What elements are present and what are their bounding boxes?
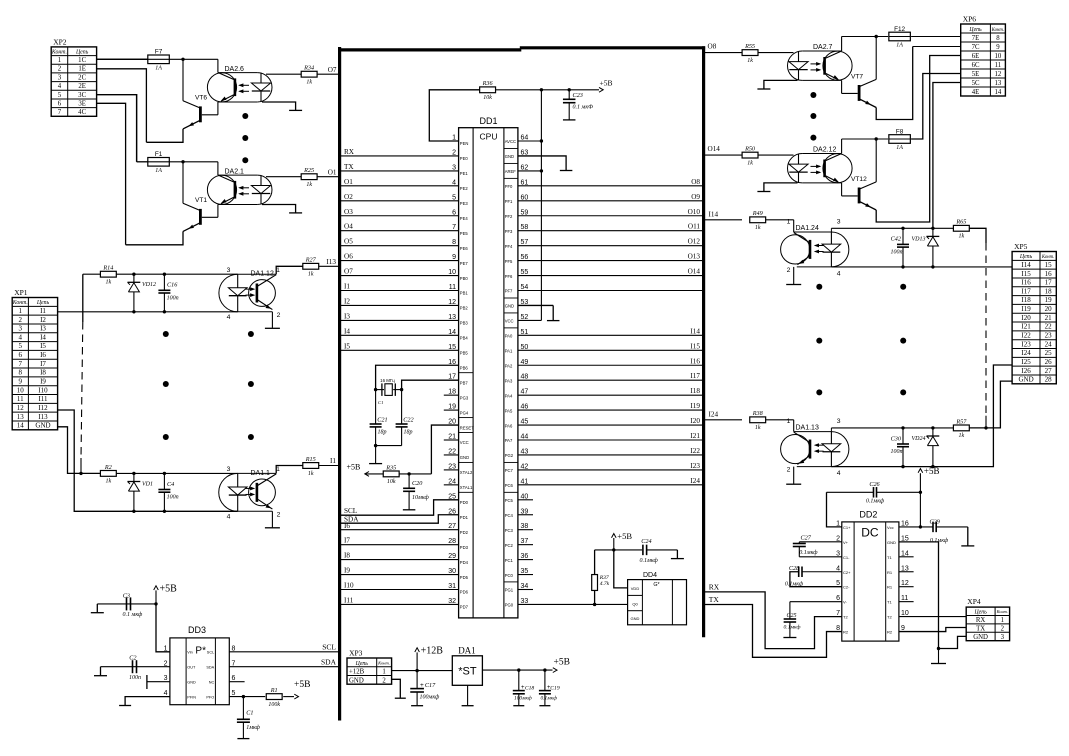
wire XP6 6E to VT12 emitter xyxy=(930,56,961,222)
svg-text:12: 12 xyxy=(995,71,1002,78)
svg-text:I23: I23 xyxy=(1021,340,1031,348)
node crystal gnd xyxy=(374,444,377,447)
svg-text:PE1: PE1 xyxy=(460,171,469,176)
svg-text:0.1мкф: 0.1мкф xyxy=(866,498,885,505)
svg-text:PA5: PA5 xyxy=(505,408,513,413)
wire net I24 from DD1 pin 41 xyxy=(518,484,704,486)
svg-text:R57: R57 xyxy=(955,418,967,425)
svg-text:I11: I11 xyxy=(344,596,354,604)
svg-text:PE2: PE2 xyxy=(460,186,469,191)
capacitor C3 xyxy=(127,603,157,605)
svg-text:DC: DC xyxy=(861,526,879,540)
wire VT7 emitter xyxy=(876,47,913,120)
wire net RX to DD1 pin 2 xyxy=(341,155,459,157)
wire net I8 to DD1 pin 29 xyxy=(341,559,459,561)
svg-text:O8: O8 xyxy=(691,178,700,186)
svg-text:O1: O1 xyxy=(344,178,353,186)
svg-text:PD4: PD4 xyxy=(460,560,469,565)
wire DA1 gnd xyxy=(467,685,469,705)
power +5V DD4 xyxy=(613,538,615,550)
svg-text:I10: I10 xyxy=(344,582,354,590)
svg-text:2E: 2E xyxy=(78,83,86,90)
wire net I20 from DD1 pin 45 xyxy=(518,424,704,426)
svg-text:F12: F12 xyxy=(894,26,905,33)
node C19 xyxy=(543,668,546,671)
svg-text:1k: 1k xyxy=(959,234,965,240)
wire to ground xyxy=(938,649,940,664)
capacitor C22 xyxy=(401,390,403,424)
wire DD1 pin 64 xyxy=(518,140,542,142)
svg-text:100n: 100n xyxy=(129,675,141,681)
wire fuse to opto collector xyxy=(217,162,219,175)
svg-text:PA1: PA1 xyxy=(505,349,513,354)
fuse F8 xyxy=(842,138,889,140)
capacitor C1 xyxy=(242,697,244,720)
wire input to opto pin1 xyxy=(793,420,795,432)
svg-text:GND: GND xyxy=(973,634,988,641)
svg-text:PF1: PF1 xyxy=(505,199,513,204)
svg-text:C1+: C1+ xyxy=(843,525,851,530)
DD1 unused left stubs xyxy=(444,394,459,396)
svg-text:I24: I24 xyxy=(709,410,719,418)
svg-text:C20: C20 xyxy=(412,480,423,487)
wire C26 to DD2 pin1 xyxy=(827,492,842,527)
svg-text:SDA: SDA xyxy=(344,516,359,524)
fuse F12 xyxy=(842,36,889,38)
wire XP1 pin12 to DA1.1 cathode rail xyxy=(58,410,238,511)
power +5V top xyxy=(599,87,603,92)
svg-text:GND: GND xyxy=(505,304,514,309)
svg-text:O3: O3 xyxy=(344,208,353,216)
svg-text:PF3: PF3 xyxy=(505,229,513,234)
svg-text:1k: 1k xyxy=(308,471,314,477)
svg-text:GND: GND xyxy=(505,154,514,159)
wire DD3 pin8 SCL to bus xyxy=(229,651,338,653)
connector XP6 xyxy=(961,24,1006,96)
svg-text:T2: T2 xyxy=(843,615,848,620)
svg-text:DD3: DD3 xyxy=(188,625,206,635)
resistor R37 xyxy=(592,575,598,591)
svg-text:VD13: VD13 xyxy=(912,236,926,242)
svg-text:Цепь: Цепь xyxy=(36,300,50,306)
svg-text:3E: 3E xyxy=(78,100,86,107)
resistor R36 xyxy=(480,87,496,93)
svg-text:I6: I6 xyxy=(40,351,46,359)
wire XP1 pin1 to DA1.12 cathode rail xyxy=(58,311,238,313)
wire opto collector to fuse line xyxy=(841,37,843,52)
svg-text:1k: 1k xyxy=(106,280,112,286)
wire net O1 to DD1 pin 4 xyxy=(341,185,459,187)
svg-text:4.7k: 4.7k xyxy=(600,581,610,587)
wire R36 to +5V rail xyxy=(496,89,599,91)
node C3 +5V xyxy=(154,602,157,605)
svg-text:VT7: VT7 xyxy=(851,73,863,80)
svg-text:SCL: SCL xyxy=(207,651,214,655)
ground C1 xyxy=(237,738,249,740)
power +12V xyxy=(415,648,420,652)
wire +5V to R35 xyxy=(365,473,383,475)
wire net I17 from DD1 pin 48 xyxy=(518,379,704,381)
connector XP5 xyxy=(1012,252,1056,384)
svg-text:I8: I8 xyxy=(344,552,350,560)
node F7-collector xyxy=(181,58,184,61)
capacitor C28 xyxy=(802,571,842,573)
node crystal left xyxy=(374,388,377,391)
svg-text:I16: I16 xyxy=(1021,279,1031,287)
svg-text:GND: GND xyxy=(887,540,896,545)
svg-text:4E: 4E xyxy=(972,89,980,96)
svg-text:PB1: PB1 xyxy=(460,291,469,296)
svg-text:XP2: XP2 xyxy=(53,37,67,46)
power +5V out xyxy=(553,668,557,673)
svg-text:PC0: PC0 xyxy=(505,573,514,578)
svg-text:I17: I17 xyxy=(690,372,700,380)
capacitor C19 xyxy=(544,670,546,691)
wire DD2 pin10 to XP4 RX xyxy=(899,616,966,618)
svg-text:O12: O12 xyxy=(688,238,701,246)
wire DD3 pin4 to ground xyxy=(125,697,170,706)
svg-text:1k: 1k xyxy=(747,160,753,166)
ground C18 xyxy=(513,705,524,707)
svg-text:T1: T1 xyxy=(887,600,892,605)
wire R14 rail left end xyxy=(83,273,101,275)
resistor R14 xyxy=(100,271,116,277)
svg-text:I18: I18 xyxy=(690,387,700,395)
svg-text:3: 3 xyxy=(227,466,231,473)
zener diode VD13 xyxy=(932,228,934,236)
svg-text:PF4: PF4 xyxy=(505,244,513,249)
svg-text:+5В: +5В xyxy=(294,680,310,690)
wire to DD1 pin 20 RESET xyxy=(431,425,458,474)
wire DA1 out to +5V xyxy=(482,669,552,671)
wire XP3 +12V row to DA1 xyxy=(392,670,453,672)
svg-text:PC6: PC6 xyxy=(505,483,514,488)
capacitor C26 xyxy=(827,491,874,493)
svg-text:C21: C21 xyxy=(377,416,387,423)
resistor R25 xyxy=(266,176,301,178)
svg-text:SDA: SDA xyxy=(206,666,214,670)
wire DD2 pin15 GND xyxy=(899,542,939,649)
wire net O9 from DD1 pin 60 xyxy=(518,200,704,202)
wire net I16 from DD1 pin 49 xyxy=(518,364,704,366)
svg-text:21: 21 xyxy=(1045,314,1053,322)
svg-text:R15: R15 xyxy=(305,456,316,463)
svg-text:3: 3 xyxy=(58,74,62,81)
svg-text:PD6: PD6 xyxy=(460,590,469,595)
svg-text:Цепь: Цепь xyxy=(973,610,987,616)
svg-text:10: 10 xyxy=(995,53,1002,60)
node crystal right xyxy=(400,388,403,391)
svg-text:+5В: +5В xyxy=(924,466,940,476)
wire DD2 pin16 to C29 xyxy=(899,526,933,528)
svg-text:I5: I5 xyxy=(40,342,46,350)
wire +5V rail to C24 xyxy=(595,549,642,551)
svg-text:I1: I1 xyxy=(330,457,336,465)
svg-text:11: 11 xyxy=(995,62,1002,69)
ground crystal xyxy=(375,446,377,464)
svg-text:C2-: C2- xyxy=(843,585,850,590)
svg-text:1E: 1E xyxy=(78,66,86,73)
svg-text:R1: R1 xyxy=(887,585,893,590)
svg-text:PC1: PC1 xyxy=(505,558,514,563)
svg-text:0.1мкф: 0.1мкф xyxy=(785,580,804,587)
svg-text:1A: 1A xyxy=(155,66,162,72)
svg-text:PA7: PA7 xyxy=(505,438,513,443)
svg-text:I20: I20 xyxy=(1021,314,1031,322)
svg-text:XTAL2: XTAL2 xyxy=(460,470,473,475)
connector XP3 xyxy=(347,658,392,684)
svg-text:1: 1 xyxy=(836,520,840,527)
svg-text:I3: I3 xyxy=(40,325,46,333)
svg-text:4: 4 xyxy=(227,514,231,521)
svg-text:F8: F8 xyxy=(896,128,904,135)
svg-text:0.1мкф: 0.1мкф xyxy=(930,537,949,544)
svg-text:PE5: PE5 xyxy=(460,231,469,236)
svg-text:R2: R2 xyxy=(104,464,112,471)
svg-text:27: 27 xyxy=(1045,367,1053,375)
svg-text:18p: 18p xyxy=(378,429,387,435)
svg-text:4C: 4C xyxy=(78,109,86,116)
svg-text:VT1: VT1 xyxy=(195,197,207,204)
svg-text:I9: I9 xyxy=(40,378,46,386)
wire opto collector to fuse line xyxy=(841,139,843,154)
svg-text:I12: I12 xyxy=(38,404,48,412)
svg-text:Конт.: Конт. xyxy=(51,49,67,55)
capacitor C24 xyxy=(642,545,644,556)
svg-text:0.1мкф: 0.1мкф xyxy=(784,624,801,631)
ground C29 xyxy=(961,545,974,547)
svg-text:PC7: PC7 xyxy=(505,468,514,473)
svg-text:CPU: CPU xyxy=(480,132,498,142)
svg-text:2: 2 xyxy=(382,677,386,684)
power +5V DD3 xyxy=(154,586,159,590)
connector XP2 xyxy=(51,47,96,116)
svg-text:I22: I22 xyxy=(1021,332,1031,340)
svg-text:I25: I25 xyxy=(1021,358,1031,366)
svg-text:I23: I23 xyxy=(690,462,700,470)
svg-text:R1: R1 xyxy=(887,570,893,575)
svg-text:18: 18 xyxy=(1045,287,1053,295)
svg-text:I15: I15 xyxy=(1021,270,1031,278)
svg-text:AVCC: AVCC xyxy=(505,139,516,144)
svg-text:PD2: PD2 xyxy=(460,530,469,535)
svg-text:C1: C1 xyxy=(378,400,383,405)
svg-text:I17: I17 xyxy=(1021,287,1031,295)
svg-text:13: 13 xyxy=(17,413,25,421)
svg-text:I4: I4 xyxy=(344,327,350,335)
svg-text:I1: I1 xyxy=(40,307,46,315)
svg-text:I2: I2 xyxy=(40,316,46,324)
wire R34 to bus O7 xyxy=(317,73,338,75)
svg-text:Цепь: Цепь xyxy=(355,661,369,667)
svg-text:DA2.1: DA2.1 xyxy=(225,168,245,175)
svg-text:PD0: PD0 xyxy=(460,500,469,505)
svg-text:C30: C30 xyxy=(891,435,902,442)
svg-text:TX: TX xyxy=(976,626,985,633)
svg-text:I16: I16 xyxy=(690,357,700,365)
capacitor C2 xyxy=(130,666,170,668)
wire bus frame left vertical xyxy=(338,47,341,721)
svg-text:I21: I21 xyxy=(690,432,700,440)
node +12V C17 xyxy=(415,669,418,672)
svg-text:4: 4 xyxy=(58,83,62,90)
svg-text:Конт.: Конт. xyxy=(996,609,1008,614)
node GND XP4 xyxy=(937,647,940,650)
wire F12 junction to VT7 collector xyxy=(875,37,877,80)
svg-text:25: 25 xyxy=(1045,349,1053,357)
capacitor C27 xyxy=(799,541,842,543)
resistor R55 xyxy=(704,52,743,54)
svg-text:5: 5 xyxy=(19,342,23,350)
wire net O6 to DD1 pin 9 xyxy=(341,260,459,262)
svg-text:R49: R49 xyxy=(752,210,763,217)
node R57 line xyxy=(984,426,987,429)
svg-text:DD2: DD2 xyxy=(859,510,877,520)
svg-text:7: 7 xyxy=(19,360,23,368)
svg-text:I14: I14 xyxy=(709,210,719,218)
wire net I11 to DD1 pin 32 xyxy=(341,603,459,605)
svg-text:C2: C2 xyxy=(129,655,136,662)
wire C22 to C21 junction xyxy=(376,445,402,447)
svg-text:C18: C18 xyxy=(525,685,535,691)
svg-text:24: 24 xyxy=(1045,340,1053,348)
svg-text:0.1мкф: 0.1мкф xyxy=(799,549,818,556)
svg-text:VT12: VT12 xyxy=(851,176,867,183)
wire net I5 to DD1 pin 15 xyxy=(341,349,459,351)
dashed common anode link xyxy=(81,322,83,458)
wire DD3 pin7 SDA to bus xyxy=(229,666,338,668)
ground C19 xyxy=(539,705,550,707)
wire input to opto pin1 xyxy=(793,220,795,232)
svg-text:V+: V+ xyxy=(843,540,849,545)
wire net I6 to DD1 pin 27 xyxy=(341,529,459,531)
svg-text:PE4: PE4 xyxy=(460,216,469,221)
svg-text:3: 3 xyxy=(227,267,231,274)
wire net O5 to DD1 pin 8 xyxy=(341,245,459,247)
wire net I9 to DD1 pin 30 xyxy=(341,574,459,576)
svg-text:R34: R34 xyxy=(303,65,314,72)
wire R37 to +5V rail xyxy=(594,550,596,575)
wire XP2 feed to fuse xyxy=(97,58,148,60)
connector XP1 xyxy=(12,298,57,430)
svg-text:TX: TX xyxy=(709,595,720,604)
svg-text:PA6: PA6 xyxy=(505,423,513,428)
svg-text:PG1: PG1 xyxy=(505,588,514,593)
svg-text:2: 2 xyxy=(787,267,791,274)
svg-text:1мкф: 1мкф xyxy=(246,724,260,731)
svg-text:16 МГц: 16 МГц xyxy=(380,378,395,383)
wire DD1 pin1 to R36 rail xyxy=(429,90,479,141)
svg-text:O14: O14 xyxy=(688,268,701,276)
node F12-collector xyxy=(875,35,878,38)
svg-text:VD1: VD1 xyxy=(142,481,153,487)
svg-text:I24: I24 xyxy=(1021,349,1031,357)
svg-text:RX: RX xyxy=(976,617,986,624)
svg-text:C2+: C2+ xyxy=(843,570,851,575)
svg-text:13: 13 xyxy=(995,80,1002,87)
svg-text:3: 3 xyxy=(19,325,23,333)
svg-text:PD5: PD5 xyxy=(460,575,469,580)
svg-text:C42: C42 xyxy=(891,236,901,243)
svg-text:I24: I24 xyxy=(690,477,700,485)
svg-text:10k: 10k xyxy=(387,479,396,485)
svg-text:R14: R14 xyxy=(102,265,113,272)
svg-text:3: 3 xyxy=(837,418,841,425)
svg-text:8: 8 xyxy=(19,369,23,377)
ellipsis dots left inputs xyxy=(163,331,169,337)
svg-text:1k: 1k xyxy=(306,80,312,86)
wire rail R14 to opto pin3 xyxy=(116,273,237,275)
wire XP2 pin5 3C to F1 xyxy=(97,95,137,162)
svg-text:PB3: PB3 xyxy=(460,321,469,326)
svg-text:11: 11 xyxy=(17,395,24,403)
svg-text:18p: 18p xyxy=(404,429,413,435)
svg-text:C16: C16 xyxy=(167,282,178,289)
svg-text:Конт.: Конт. xyxy=(377,661,390,666)
wire XP2 pin6 3E to VT1 emitter xyxy=(97,103,126,245)
svg-text:14: 14 xyxy=(995,89,1002,96)
svg-text:PB5: PB5 xyxy=(460,351,469,356)
capacitor C42 xyxy=(902,228,904,244)
svg-text:3C: 3C xyxy=(78,92,86,99)
capacitor C29 xyxy=(932,522,934,533)
capacitor C21 xyxy=(375,390,377,424)
svg-text:7: 7 xyxy=(58,109,62,116)
svg-text:1A: 1A xyxy=(896,43,903,49)
zener diode VD1 xyxy=(133,473,135,481)
wire net I21 from DD1 pin 44 xyxy=(518,439,704,441)
wire net O12 from DD1 pin 57 xyxy=(518,245,704,247)
wire net I19 from DD1 pin 46 xyxy=(518,409,704,411)
svg-text:Vcc: Vcc xyxy=(887,525,894,530)
svg-text:PC3: PC3 xyxy=(505,528,514,533)
wire net I10 to DD1 pin 31 xyxy=(341,589,459,591)
svg-text:9: 9 xyxy=(996,44,1000,51)
svg-text:R55: R55 xyxy=(744,43,755,50)
svg-text:19: 19 xyxy=(1045,296,1053,304)
power +5V reset xyxy=(365,472,369,477)
ground DA1 xyxy=(462,705,474,707)
svg-text:DD1: DD1 xyxy=(479,116,497,126)
anode rail xyxy=(831,227,953,229)
svg-text:OUT: OUT xyxy=(187,666,196,670)
wire net O11 from DD1 pin 58 xyxy=(518,230,704,232)
node C18 xyxy=(517,668,520,671)
ground C17 xyxy=(411,705,423,707)
wire XP4 GND row xyxy=(939,636,967,648)
svg-text:4: 4 xyxy=(19,333,23,341)
svg-text:7C: 7C xyxy=(972,44,980,51)
svg-text:PFO: PFO xyxy=(206,695,214,699)
svg-text:TX: TX xyxy=(344,163,354,171)
clock module DD4 xyxy=(628,580,687,625)
svg-text:10: 10 xyxy=(17,386,25,394)
DD2 nc stubs xyxy=(899,556,914,558)
resistor R34 xyxy=(266,73,301,75)
wire +5V to DD4 VDD xyxy=(614,550,628,588)
chip DD2 xyxy=(842,522,899,641)
svg-text:C17: C17 xyxy=(425,682,436,689)
wire DD2 pin3 xyxy=(799,556,842,558)
svg-text:RX: RX xyxy=(344,148,355,156)
svg-text:I7: I7 xyxy=(344,537,350,545)
svg-text:I21: I21 xyxy=(1021,323,1031,331)
svg-text:PF5: PF5 xyxy=(505,259,513,264)
wire VT6 emitter down xyxy=(146,129,183,142)
svg-text:+5В: +5В xyxy=(600,79,613,88)
svg-text:VT6: VT6 xyxy=(195,95,207,102)
svg-text:O5: O5 xyxy=(344,238,353,246)
